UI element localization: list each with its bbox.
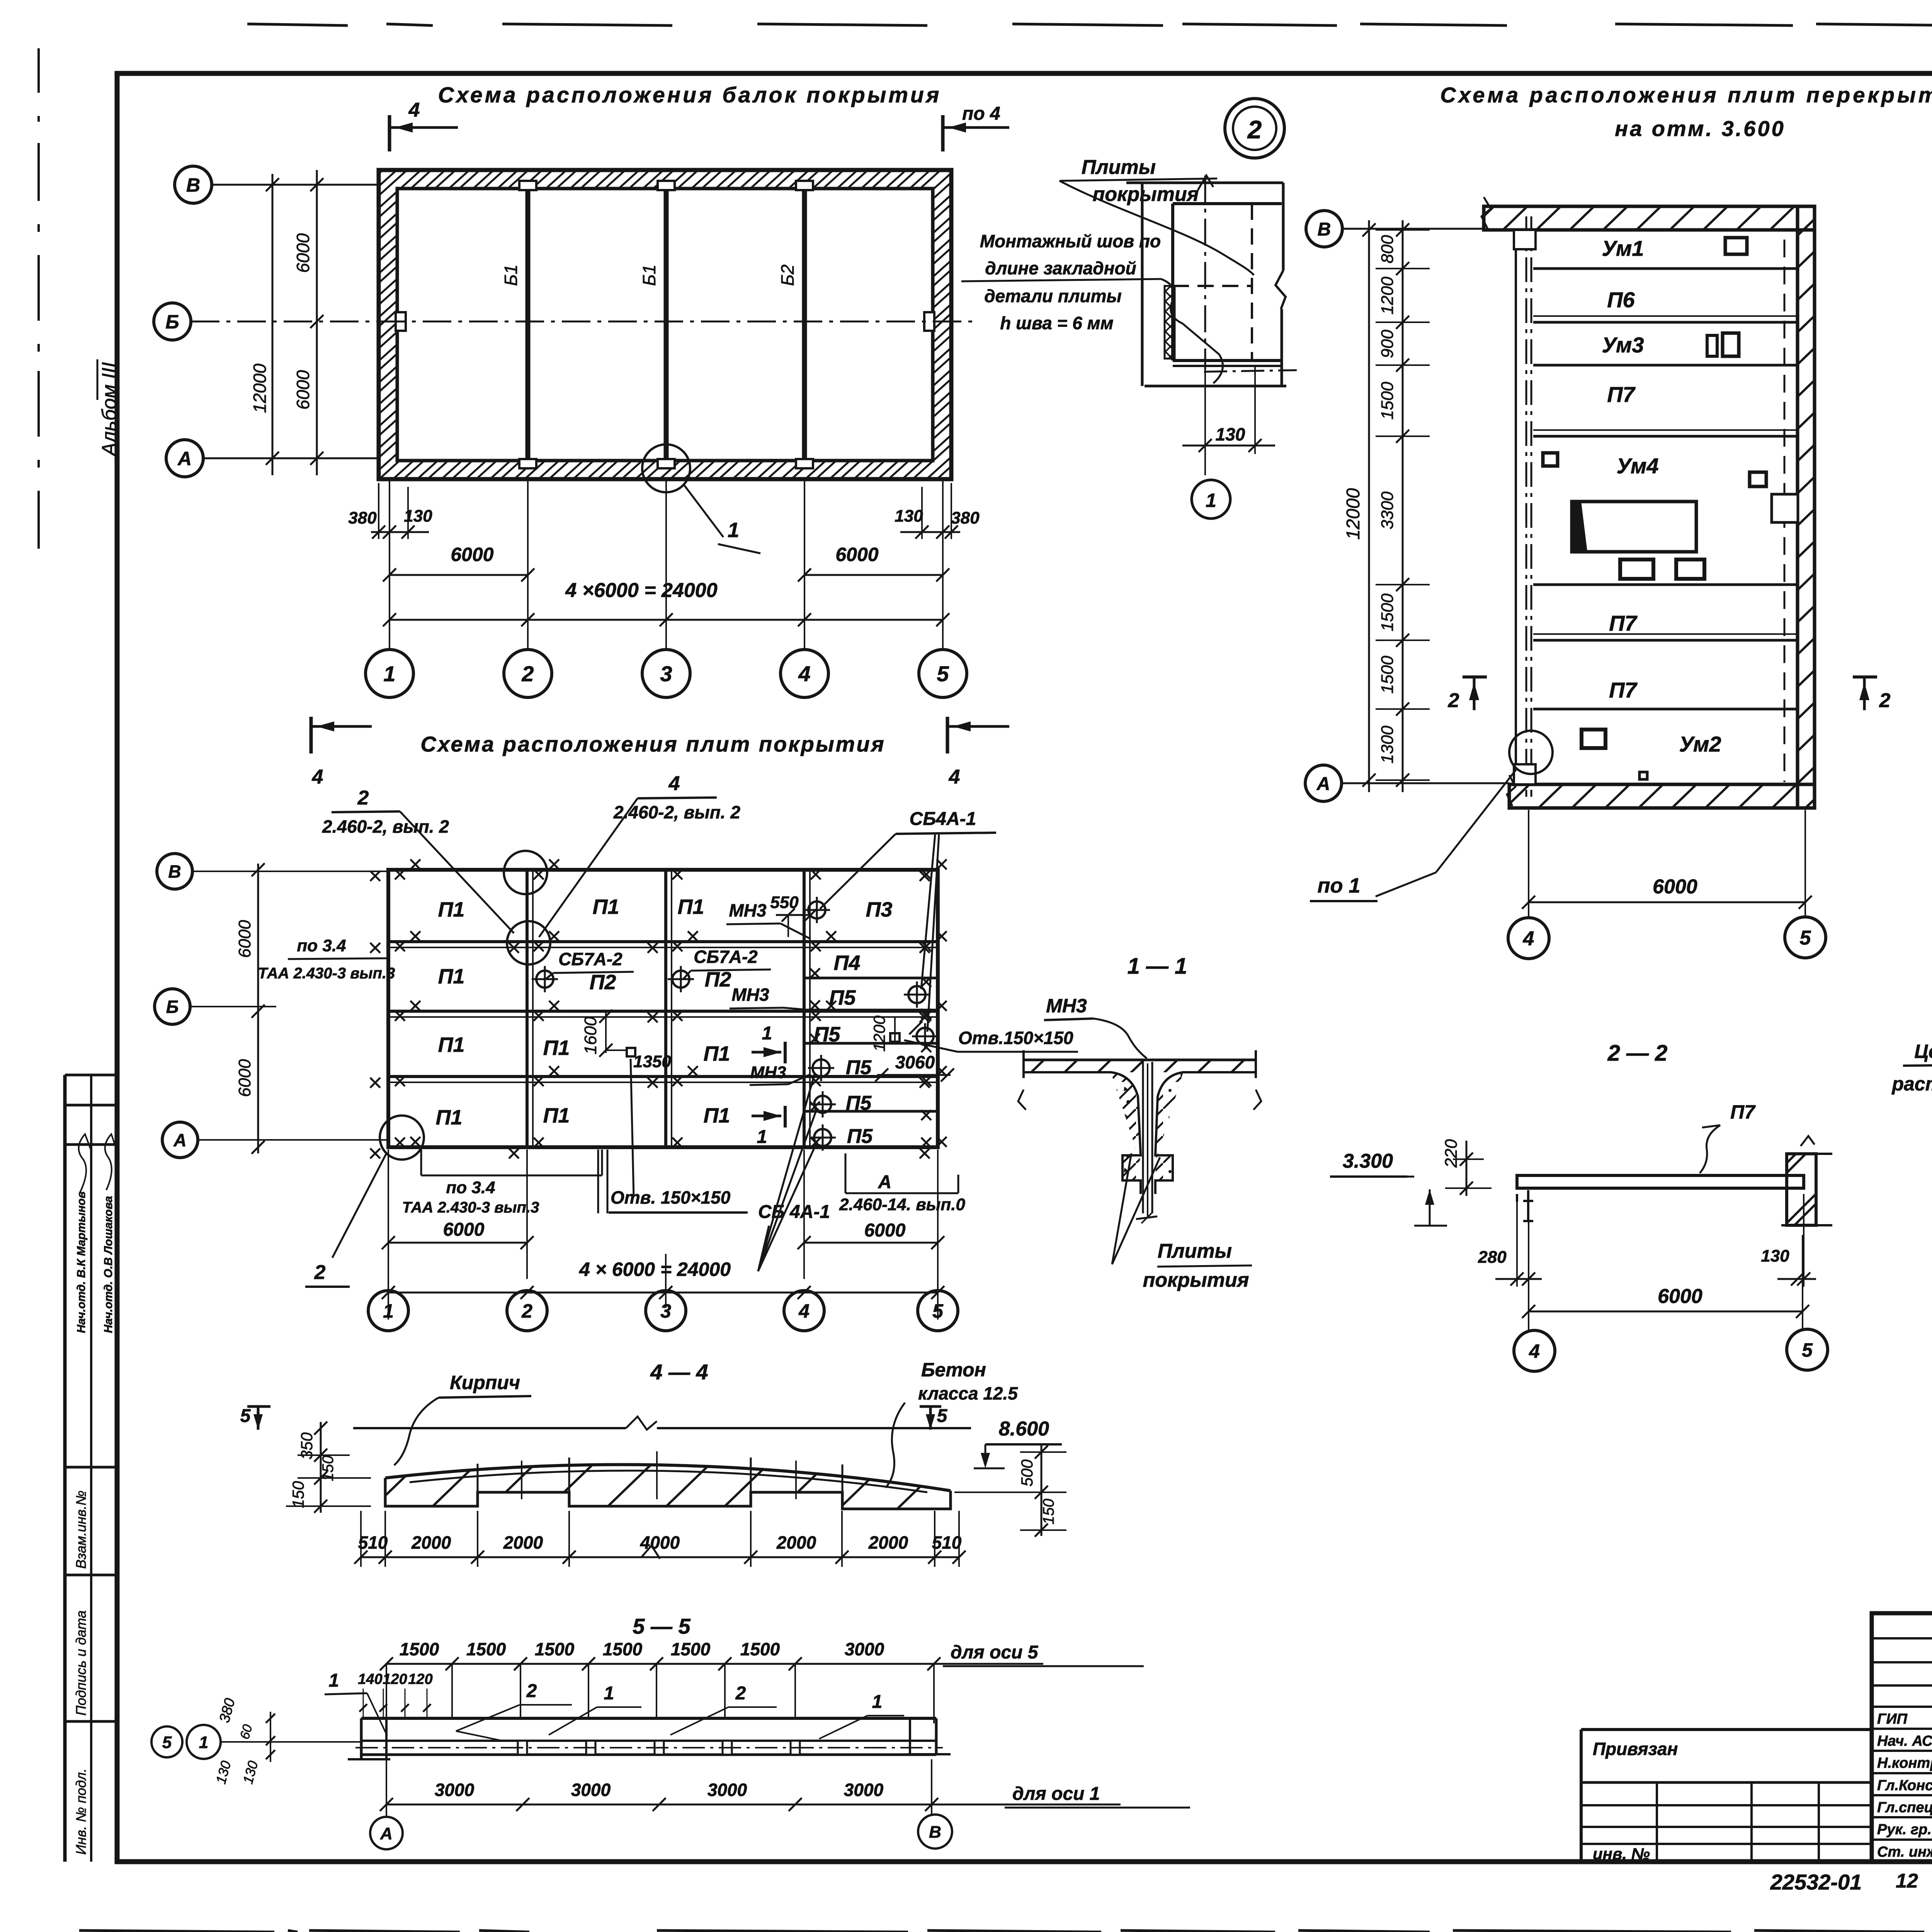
svg-text:3000: 3000: [707, 1780, 747, 1800]
plan1 bearing detail callout circle on axis 3: [642, 444, 690, 492]
plan1 pilaster left wall: [396, 312, 406, 331]
section 4-4 bottom dim chain: [361, 1556, 959, 1558]
svg-text:5: 5: [937, 662, 949, 686]
svg-text:2000: 2000: [411, 1532, 451, 1553]
svg-text:Гл.спец.: Гл.спец.: [1877, 1799, 1932, 1816]
svg-text:ТАА 2.430-3 вып.3: ТАА 2.430-3 вып.3: [402, 1199, 539, 1216]
title block outline: [1872, 1613, 1932, 1862]
svg-text:12000: 12000: [1343, 488, 1364, 540]
svg-text:ТАА 2.430-3 вып.3: ТАА 2.430-3 вып.3: [258, 965, 395, 982]
svg-text:Отв. 150×150: Отв. 150×150: [611, 1187, 731, 1207]
plan1 left dim 12000: [272, 174, 274, 475]
plan2 row lines: [388, 940, 938, 943]
svg-text:Инв. № подл.: Инв. № подл.: [73, 1769, 89, 1855]
svg-text:А: А: [1316, 774, 1330, 794]
svg-text:150: 150: [1040, 1499, 1057, 1525]
svg-text:П1: П1: [438, 898, 465, 921]
svg-text:В: В: [168, 862, 181, 882]
svg-text:Схема расположения плит пок: Схема расположения плит покрытия: [420, 732, 885, 756]
svg-text:П7: П7: [1607, 382, 1636, 406]
detail2 lower lines: [1173, 365, 1282, 367]
svg-text:П5: П5: [829, 986, 856, 1009]
svg-text:380: 380: [951, 509, 980, 527]
section 5-5 top dim chain: [386, 1663, 1043, 1665]
svg-text:2: 2: [1448, 689, 1459, 712]
svg-text:500: 500: [1018, 1459, 1036, 1486]
svg-text:СБ7А-2: СБ7А-2: [558, 949, 622, 969]
svg-text:по 3.4: по 3.4: [446, 1178, 495, 1197]
svg-text:П4: П4: [834, 951, 861, 975]
svg-text:900: 900: [1378, 330, 1397, 358]
beam B1 on axis 2: [526, 190, 531, 459]
detail2 centerline axis 1: [1204, 175, 1206, 369]
middle plan grid circles 4 5: [1508, 918, 1549, 959]
svg-text:П1: П1: [593, 895, 619, 918]
svg-text:4: 4: [798, 662, 810, 686]
plan2 grid circles 1-5: [388, 1290, 389, 1293]
plan2 weld x-marks: [395, 869, 405, 879]
svg-text:4: 4: [949, 766, 960, 788]
svg-text:А: А: [177, 448, 192, 469]
svg-text:длине закладной: длине закладной: [985, 258, 1136, 278]
svg-text:по 1: по 1: [1317, 874, 1360, 897]
middle plan right wall hatched: [1798, 206, 1815, 808]
svg-text:Нач.отд. О.В Лошакова: Нач.отд. О.В Лошакова: [102, 1196, 115, 1333]
section 5-5 bottom dim chain: [386, 1804, 1121, 1806]
middle plan slab openings: [1725, 238, 1747, 254]
svg-text:1: 1: [1206, 490, 1216, 511]
svg-text:380: 380: [348, 509, 377, 527]
svg-text:Нач.отд. В.К Мартынов: Нач.отд. В.К Мартынов: [75, 1191, 88, 1333]
svg-text:130: 130: [404, 507, 432, 526]
svg-text:8.600: 8.600: [999, 1418, 1049, 1440]
svg-text:на отм. 3.600: на отм. 3.600: [1615, 116, 1785, 141]
svg-text:Ум2: Ум2: [1679, 732, 1721, 756]
plan1 grid circles 1-5: [366, 650, 413, 697]
svg-text:СБ7А-2: СБ7А-2: [694, 947, 758, 967]
svg-text:П7: П7: [1609, 611, 1638, 635]
plan2 bottom dims 6000: [464, 1243, 465, 1245]
middle plan corner detail circle: [1509, 731, 1553, 774]
svg-text:2: 2: [526, 1681, 537, 1701]
middle plan dashed right plate ends: [1784, 240, 1786, 782]
svg-text:Плиты: Плиты: [1158, 1240, 1232, 1262]
plan2 dim 4x6000=24000: [388, 1292, 938, 1294]
svg-text:1300: 1300: [1378, 726, 1397, 764]
svg-text:5 — 5: 5 — 5: [633, 1614, 690, 1638]
svg-text:6000: 6000: [1653, 876, 1697, 898]
plan1 beam bearing notches top: [519, 181, 536, 190]
svg-text:6000: 6000: [293, 233, 313, 273]
svg-text:Подпись и дата: Подпись и дата: [73, 1611, 89, 1716]
svg-text:Отв.150×150: Отв.150×150: [958, 1028, 1073, 1048]
svg-text:1: 1: [762, 1023, 772, 1044]
plan2 right column sub rows: [804, 977, 938, 980]
section 2-2 dim 280: [1495, 1278, 1542, 1280]
svg-text:6000: 6000: [293, 370, 313, 410]
plan1 grid circle B: [154, 303, 191, 340]
svg-text:5: 5: [1802, 1339, 1813, 1361]
svg-text:Б: Б: [166, 997, 179, 1017]
svg-text:П2: П2: [590, 971, 616, 994]
svg-text:150: 150: [289, 1481, 307, 1508]
detail2 dim 130: [1204, 369, 1206, 475]
middle plan break mark top left: [1481, 197, 1491, 229]
detail 1-1 hatched top flange: [1024, 1060, 1256, 1072]
svg-text:П1: П1: [543, 1036, 570, 1060]
section 2-2 dim 6000: [1529, 1311, 1803, 1313]
svg-text:по 3.4: по 3.4: [297, 936, 346, 955]
svg-text:П1: П1: [438, 1033, 465, 1056]
svg-text:2.460-14. вып.0: 2.460-14. вып.0: [839, 1195, 965, 1214]
svg-text:5: 5: [162, 1733, 172, 1752]
svg-text:6000: 6000: [443, 1219, 485, 1240]
svg-text:СБ 4А-1: СБ 4А-1: [758, 1202, 830, 1222]
svg-text:3300: 3300: [1378, 492, 1397, 529]
plan1 grid circle A: [166, 440, 203, 477]
sheet edge dash-dot line left: [37, 48, 40, 93]
detail2 dashed plate edge: [1251, 204, 1253, 361]
svg-text:6000: 6000: [235, 1059, 254, 1097]
svg-text:3000: 3000: [844, 1780, 884, 1800]
svg-text:Альбом III: Альбом III: [98, 362, 121, 457]
middle plan bottom wall hatched: [1509, 784, 1815, 808]
section 4-4 segment verticals: [477, 1464, 479, 1492]
svg-text:Б1: Б1: [501, 264, 521, 286]
svg-text:1200: 1200: [1378, 277, 1397, 315]
beam B1 on axis 3: [664, 190, 669, 459]
plan1 axis B dash-dot line: [191, 321, 974, 323]
svg-text:6000: 6000: [451, 544, 493, 565]
svg-text:П1: П1: [543, 1104, 570, 1127]
svg-text:3000: 3000: [435, 1780, 474, 1800]
svg-text:4: 4: [312, 766, 323, 788]
svg-text:3: 3: [660, 662, 672, 686]
svg-text:2: 2: [735, 1683, 746, 1704]
detail2 hatched seam strip: [1165, 286, 1175, 359]
svg-text:покрытия: покрытия: [1143, 1269, 1249, 1291]
section 5-5 left grid circles 5 1: [151, 1726, 182, 1757]
middle plan grid circle A: [1305, 765, 1342, 801]
svg-text:6000: 6000: [864, 1220, 906, 1241]
plan1 small dims 380 130 left: [371, 531, 429, 533]
svg-text:4: 4: [408, 99, 420, 121]
svg-text:4000: 4000: [640, 1532, 680, 1553]
svg-text:120: 120: [383, 1671, 407, 1687]
svg-text:МН3: МН3: [750, 1063, 786, 1082]
svg-text:6000: 6000: [1658, 1285, 1702, 1308]
svg-text:по 4: по 4: [962, 104, 1000, 124]
svg-text:класса 12.5: класса 12.5: [918, 1383, 1018, 1403]
svg-text:1350: 1350: [633, 1052, 671, 1071]
svg-text:3060: 3060: [895, 1052, 935, 1072]
plan1 section mark 4 bottom left: [310, 717, 313, 753]
svg-text:МН3: МН3: [731, 985, 769, 1005]
svg-text:220: 220: [1442, 1139, 1461, 1168]
section 2-2 slab: [1517, 1175, 1804, 1188]
svg-text:h шва = 6 мм: h шва = 6 мм: [1000, 313, 1113, 333]
svg-text:1600: 1600: [581, 1017, 600, 1054]
svg-text:Взам.инв.№: Взам.инв.№: [73, 1490, 89, 1569]
svg-text:Рук. гр.: Рук. гр.: [1877, 1821, 1932, 1838]
svg-text:1500: 1500: [671, 1639, 711, 1659]
svg-text:П1: П1: [704, 1104, 730, 1127]
svg-text:Цементный: Цементный: [1914, 1041, 1932, 1062]
svg-text:П3: П3: [866, 898, 893, 921]
svg-text:П1: П1: [436, 1106, 463, 1129]
section 2-2 dim 130: [1777, 1278, 1816, 1280]
svg-text:П7: П7: [1609, 678, 1638, 702]
plan1 grid circle V: [175, 166, 212, 203]
svg-text:130: 130: [1761, 1247, 1789, 1265]
svg-text:1500: 1500: [1378, 382, 1397, 420]
svg-text:П1: П1: [678, 895, 704, 918]
svg-text:4: 4: [1523, 928, 1534, 950]
svg-text:4 × 6000 = 24000: 4 × 6000 = 24000: [579, 1259, 731, 1280]
svg-text:П7: П7: [1730, 1101, 1756, 1123]
section 4-4 top line with break: [353, 1427, 626, 1429]
svg-text:5: 5: [1800, 927, 1811, 949]
plan2 circle-cross anchors: [808, 901, 825, 918]
section 4-4 left dims: [320, 1422, 322, 1513]
section 2-2 dim 220: [1466, 1141, 1468, 1196]
svg-text:Ум1: Ум1: [1602, 236, 1644, 260]
svg-text:2.460-2, вып. 2: 2.460-2, вып. 2: [322, 816, 449, 837]
svg-text:П5: П5: [847, 1125, 873, 1148]
middle plan left plate edge lines: [1515, 230, 1517, 784]
svg-text:1: 1: [872, 1692, 883, 1712]
detail2 plate rect: [1173, 202, 1282, 205]
detail 2 double circle: [1225, 99, 1284, 158]
middle plan po 1 label: [1436, 769, 1517, 872]
svg-text:4: 4: [1529, 1340, 1540, 1362]
svg-text:1: 1: [728, 519, 739, 542]
svg-text:СБ4А-1: СБ4А-1: [910, 809, 976, 829]
svg-text:1500: 1500: [466, 1639, 506, 1659]
svg-text:1 — 1: 1 — 1: [1128, 954, 1187, 979]
svg-text:22532-01: 22532-01: [1770, 1870, 1862, 1894]
plan1 small dims 130 380 right: [900, 531, 960, 533]
svg-text:детали плиты: детали плиты: [984, 286, 1122, 306]
left margin form boxes: [65, 1074, 118, 1077]
svg-text:4 ×6000 = 24000: 4 ×6000 = 24000: [565, 579, 717, 602]
svg-text:1500: 1500: [535, 1639, 575, 1659]
middle plan top wall hatched: [1484, 206, 1815, 230]
middle plan dim 12000: [1368, 220, 1370, 792]
svg-text:Ст. инж.: Ст. инж.: [1877, 1844, 1932, 1860]
plan1 pilaster right wall: [924, 312, 934, 331]
svg-text:А: А: [173, 1130, 186, 1150]
svg-text:Схема расположения балок покры: Схема расположения балок покрытия: [438, 83, 942, 107]
middle plan plate row lines: [1533, 267, 1798, 270]
svg-text:Б1: Б1: [639, 264, 659, 286]
svg-text:Б2: Б2: [777, 264, 798, 286]
svg-text:2: 2: [1247, 115, 1262, 144]
svg-text:МН3: МН3: [1046, 995, 1087, 1017]
svg-text:510: 510: [932, 1532, 962, 1553]
svg-text:В: В: [1318, 219, 1331, 240]
svg-text:В: В: [186, 174, 200, 196]
svg-text:5: 5: [240, 1406, 251, 1426]
middle plan corner notch bottom: [1514, 764, 1536, 784]
svg-text:для оси 5: для оси 5: [951, 1642, 1039, 1663]
svg-text:3: 3: [660, 1300, 671, 1322]
plan1 section mark 4 bottom right: [946, 717, 949, 753]
svg-text:1500: 1500: [1378, 594, 1397, 631]
svg-text:2000: 2000: [868, 1532, 908, 1553]
svg-text:Привязан: Привязан: [1593, 1739, 1678, 1759]
svg-text:П5: П5: [846, 1056, 872, 1079]
svg-text:1: 1: [383, 1300, 394, 1322]
plan2 left dim chain: [257, 864, 259, 1153]
sheet edge dashed line bottom: [79, 1930, 274, 1932]
svg-text:А: А: [380, 1824, 393, 1843]
svg-text:3000: 3000: [571, 1780, 611, 1800]
svg-text:130: 130: [895, 507, 923, 526]
section 2-2 grid circles 4 5: [1514, 1330, 1555, 1371]
section 4-4 roof slab profile: [385, 1464, 951, 1491]
svg-text:для оси 1: для оси 1: [1012, 1784, 1100, 1804]
svg-text:П2: П2: [705, 968, 731, 991]
svg-text:2: 2: [1879, 689, 1891, 712]
middle plan corner notch top: [1514, 230, 1536, 249]
svg-text:1: 1: [329, 1670, 339, 1691]
svg-text:1: 1: [383, 662, 395, 686]
svg-text:800: 800: [1378, 235, 1397, 264]
detail 1-1 plates section: [1024, 1059, 1256, 1061]
plan1 section mark 4 top: [388, 115, 391, 151]
sheet edge dashed line top: [247, 24, 348, 26]
svg-text:1: 1: [604, 1683, 614, 1704]
plan2 double tick below axis2: [597, 1150, 599, 1213]
middle plan big opening: [1572, 502, 1696, 552]
svg-text:5: 5: [932, 1300, 944, 1322]
detail 1-1 dowel: [1142, 1062, 1144, 1213]
svg-text:1: 1: [757, 1127, 767, 1147]
plan2 column lines: [526, 870, 529, 1147]
section 4-4 right dims: [1041, 1445, 1043, 1536]
svg-text:2: 2: [521, 1300, 532, 1322]
svg-text:1500: 1500: [1378, 656, 1397, 694]
plan2 top-left detail circles on axis 2: [504, 851, 547, 894]
plan1 beam bearing notches bottom: [519, 459, 536, 468]
svg-text:Ум4: Ум4: [1616, 454, 1658, 478]
svg-text:6000: 6000: [235, 920, 254, 958]
section 5-5 joint slots: [518, 1741, 527, 1755]
middle plan left dim chain: [1402, 220, 1404, 792]
middle plan grid circle V: [1306, 211, 1342, 247]
svg-text:4: 4: [668, 772, 680, 795]
svg-text:Б: Б: [165, 311, 179, 333]
plan1 grid extension lines: [389, 481, 390, 650]
svg-text:130: 130: [1216, 424, 1245, 444]
beam B2 on axis 4: [802, 190, 807, 459]
plan1 left dim chain 6000/6000: [316, 170, 318, 475]
svg-text:120: 120: [408, 1671, 432, 1687]
detail2 drawing: plate plan corner: [1126, 182, 1283, 184]
svg-text:2000: 2000: [776, 1532, 816, 1553]
middle plan section mark 2 left: [1463, 675, 1487, 679]
svg-text:Кирпич: Кирпич: [450, 1372, 520, 1393]
svg-text:6000: 6000: [835, 544, 878, 565]
svg-text:МН3: МН3: [729, 900, 767, 920]
plan1 walls hatched: [379, 170, 951, 479]
svg-text:Плиты: Плиты: [1082, 156, 1156, 179]
svg-text:2 — 2: 2 — 2: [1607, 1041, 1668, 1066]
svg-text:5: 5: [937, 1406, 948, 1426]
section 5-5 centerline: [355, 1747, 943, 1748]
svg-text:Ум3: Ум3: [1602, 333, 1644, 357]
svg-text:12000: 12000: [250, 364, 270, 413]
plan1 dim 6000 left span: [389, 574, 528, 576]
svg-text:2: 2: [521, 662, 534, 686]
svg-text:Монтажный шов по: Монтажный шов по: [980, 231, 1161, 251]
svg-text:В: В: [929, 1823, 941, 1842]
middle plan section mark 2 right: [1853, 675, 1877, 679]
svg-text:1200: 1200: [870, 1015, 888, 1052]
svg-text:2: 2: [357, 787, 369, 809]
svg-text:Схема расположения плит перекр: Схема расположения плит перекрытия: [1440, 83, 1932, 107]
svg-text:3.300: 3.300: [1343, 1150, 1393, 1172]
plan1 dim 4x6000=24000: [389, 619, 943, 621]
svg-text:инв. №: инв. №: [1593, 1845, 1650, 1863]
svg-text:4 — 4: 4 — 4: [650, 1360, 708, 1384]
plan1 section mark po4 top right: [941, 115, 945, 151]
svg-text:1500: 1500: [400, 1639, 439, 1659]
svg-text:Бетон: Бетон: [921, 1359, 986, 1381]
svg-text:2000: 2000: [503, 1532, 543, 1553]
plan2 left grid circles: [157, 854, 192, 889]
detail2 grid circle 1: [1192, 480, 1230, 519]
svg-text:1500: 1500: [740, 1639, 780, 1659]
plan2 po34 bracket bottom: [420, 1150, 422, 1175]
svg-text:П1: П1: [704, 1042, 730, 1065]
section 2-2 right wall: [1787, 1154, 1816, 1225]
svg-text:4: 4: [798, 1300, 810, 1322]
svg-text:140: 140: [358, 1671, 382, 1687]
svg-text:П6: П6: [1607, 287, 1635, 312]
svg-text:12: 12: [1896, 1870, 1918, 1892]
svg-text:П1: П1: [438, 965, 465, 988]
plan1 dim 6000 right span: [804, 574, 943, 576]
privyazan table: [1581, 1728, 1872, 1731]
plan2 outline: [388, 870, 938, 1147]
svg-text:Нач. АСО: Нач. АСО: [1877, 1733, 1932, 1749]
svg-text:раствор марки 100: раствор марки 100: [1891, 1073, 1932, 1095]
detail 1-1 end breaks: [1018, 1090, 1026, 1110]
svg-text:3000: 3000: [845, 1639, 884, 1659]
middle plan right wall pilaster: [1772, 494, 1798, 522]
middle plan bottom dim 6000: [1528, 810, 1529, 918]
section 5-5 grid circles A V: [370, 1817, 403, 1849]
svg-text:510: 510: [358, 1532, 388, 1553]
svg-text:280: 280: [1478, 1248, 1507, 1267]
svg-text:2: 2: [314, 1261, 326, 1284]
svg-text:П5: П5: [846, 1092, 872, 1114]
svg-text:Гл.Конс.: Гл.Конс.: [1877, 1777, 1932, 1794]
svg-text:А: А: [878, 1172, 892, 1192]
svg-text:1500: 1500: [603, 1639, 643, 1659]
plan2 corner detail circle bottom left: [380, 1116, 424, 1160]
svg-text:ГИП: ГИП: [1877, 1711, 1908, 1727]
svg-text:Н.контр: Н.контр: [1877, 1755, 1932, 1771]
svg-text:1: 1: [199, 1733, 208, 1752]
section 5-5 member: [361, 1717, 936, 1720]
